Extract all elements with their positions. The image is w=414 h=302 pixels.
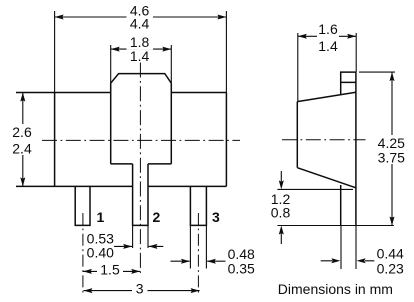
svg-text:1.5: 1.5 <box>100 262 120 278</box>
dim 1.5 line <box>83 270 140 272</box>
dim 1.8/1.4 extension lines <box>111 45 172 83</box>
front view: body outline <box>16 93 226 187</box>
dim 0.44 arrows <box>331 258 340 263</box>
dim 3 arrows <box>83 288 92 293</box>
dim 1.2 arrows <box>279 180 284 189</box>
dim 1.8 arrows <box>111 47 120 52</box>
dim 4.25/3.75 top extension <box>359 71 395 73</box>
side view: bottom slant <box>297 168 356 188</box>
svg-text:0.44: 0.44 <box>377 246 404 262</box>
dim 1.6 arrows <box>298 34 307 39</box>
dim 0.48 arrows <box>181 259 190 264</box>
dim 4.6 arrows <box>55 15 64 20</box>
dim 4.25 arrows <box>390 72 395 81</box>
front view: lead 1 <box>75 186 90 225</box>
dim 1.6/1.4 line <box>298 35 356 37</box>
side view: horizontal centerline <box>282 139 366 141</box>
dim 4.6/4.4 line <box>55 16 227 18</box>
side view: lead bottom / bottom extension line <box>277 225 394 227</box>
svg-text:0.35: 0.35 <box>228 260 255 276</box>
svg-text:0.23: 0.23 <box>377 261 404 277</box>
dim 4.25/3.75 line <box>391 72 393 225</box>
svg-text:1: 1 <box>97 209 105 225</box>
side view: top slant <box>297 92 356 101</box>
dim 1.2/0.8 arrow shafts <box>280 171 282 244</box>
svg-text:0.40: 0.40 <box>87 245 114 261</box>
svg-text:1.4: 1.4 <box>130 48 150 64</box>
front view: center tab with chamfered top <box>111 74 172 164</box>
svg-text:3.75: 3.75 <box>378 149 405 165</box>
svg-text:Dimensions in mm: Dimensions in mm <box>278 281 393 297</box>
lead 2 edge extension lines <box>133 225 148 248</box>
side view: right edge <box>355 72 357 226</box>
svg-text:0.8: 0.8 <box>271 204 291 220</box>
svg-text:2.4: 2.4 <box>12 141 32 157</box>
side view: lead left edge <box>340 185 342 226</box>
dim 0.53/0.40 lines <box>114 245 163 247</box>
side view: left edge <box>296 102 298 168</box>
svg-text:3: 3 <box>212 209 220 225</box>
svg-text:2.6: 2.6 <box>12 124 32 140</box>
lead 3 edge extension lines <box>190 225 206 268</box>
dim 1.2/0.8 upper extension <box>277 188 353 190</box>
dim 1.8/1.4 line <box>111 48 172 50</box>
dim 3 line <box>83 290 199 292</box>
dim 0.44/0.23 extension lines <box>341 226 356 269</box>
front view: center lead 2 stem <box>133 164 148 226</box>
side view: top tab <box>341 72 356 95</box>
dim 2.6/2.4 line <box>22 93 24 187</box>
dim 4.6/4.4 extension lines <box>55 11 227 93</box>
svg-text:4.4: 4.4 <box>130 16 150 32</box>
front view: lead 3 <box>190 186 206 225</box>
dim 0.53 arrows <box>123 244 132 249</box>
front view: horizontal centerline <box>42 139 240 141</box>
dim 2.6 arrows <box>20 93 25 102</box>
dim 0.44/0.23 lines <box>321 260 375 262</box>
svg-text:3: 3 <box>136 281 144 297</box>
lead 3 centerline extension <box>197 213 199 293</box>
front view: vertical centerline <box>139 63 141 274</box>
svg-text:1.4: 1.4 <box>318 38 338 54</box>
svg-text:1.6: 1.6 <box>318 21 338 37</box>
svg-text:2: 2 <box>153 209 161 225</box>
dim 1.6/1.4 extension lines <box>298 33 356 102</box>
dim 1.5 arrows <box>83 269 92 274</box>
lead 1 centerline extension <box>82 213 84 293</box>
dim 0.48/0.35 lines <box>171 260 226 262</box>
